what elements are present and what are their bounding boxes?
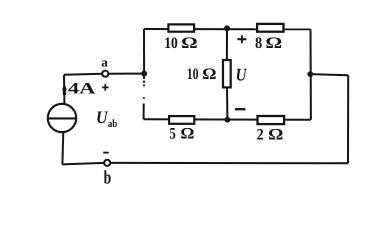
svg-text:4A: 4A (68, 81, 96, 98)
node: top middle junction dot (224, 25, 230, 31)
svg-text:8: 8 (255, 35, 262, 52)
plus sign near a (102, 84, 109, 91)
svg-text:Ω: Ω (181, 35, 198, 52)
label 5 Ω (170, 126, 195, 143)
minus sign for U (235, 108, 245, 110)
wire: bottom outer (terminal b to bottom-right corner) (111, 162, 349, 164)
wire: inner left edge upper (node A up to top-left corner) (143, 29, 145, 74)
svg-text:U: U (236, 65, 248, 85)
wire: outer stub (node B to outer right edge) (310, 74, 348, 75)
svg-text:10: 10 (164, 35, 178, 52)
svg-text:Ω: Ω (202, 66, 216, 83)
svg-text:a: a (101, 55, 108, 70)
label Uab (96, 107, 117, 130)
node B junction dot (outer loop taps right edge) (307, 71, 313, 77)
svg-text:5: 5 (170, 126, 176, 143)
wire: top edge (144, 28, 311, 30)
node: bottom middle junction dot (225, 117, 231, 123)
plus sign for U (237, 35, 246, 43)
terminal b (open circle) (104, 160, 110, 166)
label 8 Ω (255, 35, 282, 52)
wire: current source bottom to bottom-left corner (61, 132, 64, 164)
svg-text:Ω: Ω (265, 35, 282, 52)
wire: middle branch upper (226, 28, 228, 60)
wire: bottom edge of inner rectangle (144, 118, 311, 121)
current source arrow (points up) (62, 83, 67, 95)
wire: inner left edge lower (node A down to bottom-left corner, scan-faded) (143, 77, 145, 120)
resistor 10Ω (top): box (168, 24, 194, 31)
svg-text:U: U (96, 107, 109, 127)
node A junction dot (141, 71, 147, 77)
label 10 Ω (middle resistor) (187, 66, 217, 83)
label 10 Ω (top resistor) (164, 35, 198, 52)
current source U1: circle with horizontal bar (48, 104, 76, 132)
terminal a (open circle) (102, 71, 108, 77)
svg-text:b: b (104, 168, 112, 188)
label 2 Ω (257, 126, 284, 143)
wire: outer right vertical edge (347, 75, 349, 163)
minus sign near b (103, 152, 109, 154)
wire: terminal a to node A (108, 73, 141, 75)
svg-text:10: 10 (187, 66, 199, 83)
wire: inner right edge (310, 29, 312, 120)
wire: top outer from left corner to terminal a (64, 74, 102, 75)
svg-text:ab: ab (108, 118, 117, 130)
resistor 10Ω (middle): vertical box (223, 60, 231, 87)
svg-text:2: 2 (257, 126, 264, 143)
wire: left vertical (corner to current source top) (63, 75, 65, 104)
wire: middle branch lower (226, 87, 228, 119)
svg-text:Ω: Ω (180, 126, 194, 143)
resistor 5Ω: box (169, 116, 194, 124)
svg-text:Ω: Ω (268, 126, 283, 143)
resistor 2Ω: box (258, 116, 285, 124)
wire: bottom outer (left corner to terminal b) (62, 163, 104, 165)
resistor 8Ω: box (257, 24, 283, 32)
